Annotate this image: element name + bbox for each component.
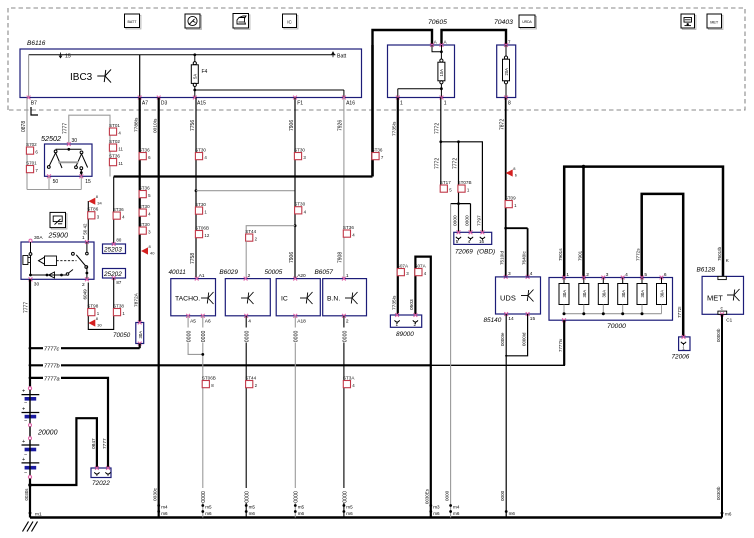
- svg-text:0000Ie: 0000Ie: [500, 332, 505, 346]
- svg-text:2: 2: [82, 282, 85, 288]
- svg-text:30: 30: [97, 322, 102, 327]
- svg-text:85140: 85140: [484, 317, 502, 324]
- svg-text:15: 15: [65, 53, 71, 59]
- unit MET (B6128) box: [702, 276, 743, 314]
- svg-text:7797: 7797: [476, 215, 482, 226]
- wire 7772 from fuse10A pin1(right): [440, 98, 442, 142]
- svg-text:m6: m6: [509, 511, 516, 516]
- svg-text:S702: S702: [26, 142, 37, 147]
- connector ST36: [113, 207, 125, 220]
- connector ST36: [139, 185, 151, 198]
- wire-destination arrow: [506, 166, 518, 178]
- svg-text:7640Ic: 7640Ic: [521, 251, 526, 265]
- wire 70000 bottom pin to bus 7777b: [562, 318, 566, 322]
- connector ST17: [440, 180, 452, 193]
- svg-text:0000: 0000: [444, 490, 449, 501]
- connector S701: [26, 160, 38, 173]
- svg-text:C1: C1: [726, 318, 732, 323]
- svg-text:7772I: 7772I: [677, 307, 682, 319]
- svg-text:89000: 89000: [396, 331, 414, 338]
- svg-text:MET: MET: [710, 20, 719, 24]
- branch to ST17: [440, 142, 442, 185]
- ignition switch 25900 box: [21, 242, 94, 279]
- wire 7788 from pin A7 (thick): [139, 98, 141, 323]
- svg-text:0000Ib: 0000Ib: [716, 328, 721, 342]
- svg-text:1: 1: [400, 100, 403, 106]
- svg-text:+: +: [22, 389, 25, 395]
- svg-text:m4: m4: [161, 505, 168, 510]
- connector ST30: [139, 222, 151, 235]
- svg-text:ST36: ST36: [113, 207, 124, 212]
- wire 52502 pins to 0878: [48, 176, 50, 189]
- svg-text:B7: B7: [31, 100, 37, 106]
- svg-text:30A: 30A: [562, 290, 567, 298]
- internal bus bar: [564, 313, 662, 315]
- wire fuse5 to 72006 (thick): [642, 194, 684, 337]
- icon clock gauge: [186, 15, 201, 29]
- svg-text:0000: 0000: [294, 331, 300, 343]
- svg-text:m6: m6: [298, 511, 305, 516]
- bus wire to 25203 (thick horizontal): [114, 175, 373, 177]
- connector ST98: [87, 303, 99, 316]
- svg-text:ST06B: ST06B: [195, 225, 209, 230]
- svg-text:52502: 52502: [41, 134, 61, 143]
- svg-text:3: 3: [508, 271, 511, 277]
- svg-text:50: 50: [53, 179, 59, 185]
- svg-text:70605: 70605: [428, 19, 447, 26]
- wire B6029 pin4 ground: [245, 316, 247, 518]
- wire OBD shield to ground (grey): [450, 204, 452, 518]
- svg-text:ST30: ST30: [195, 202, 206, 207]
- svg-text:ST30: ST30: [294, 202, 305, 207]
- svg-text:0503: 0503: [409, 299, 415, 310]
- svg-text:D3: D3: [161, 100, 168, 106]
- connector S702: [26, 142, 38, 155]
- svg-text:0000: 0000: [342, 491, 348, 503]
- svg-text:30A: 30A: [602, 290, 607, 298]
- svg-text:m6: m6: [346, 511, 353, 516]
- svg-text:7777b: 7777b: [44, 364, 60, 370]
- svg-text:0000: 0000: [342, 331, 348, 343]
- svg-text:0000: 0000: [201, 491, 207, 503]
- relay 52502 internals: [56, 148, 82, 150]
- connector ST01: [109, 123, 121, 136]
- svg-text:1: 1: [346, 273, 349, 279]
- svg-text:m6: m6: [205, 511, 212, 516]
- fuse 10A: [432, 45, 441, 52]
- svg-text:m6: m6: [453, 511, 460, 516]
- svg-text:30: 30: [34, 282, 40, 288]
- connector ST07B: [458, 180, 472, 193]
- wire ignition 30 to battery positive: [29, 279, 31, 386]
- svg-text:A20: A20: [297, 273, 306, 279]
- ignition internals bottom row: [29, 274, 32, 277]
- internal-connection symbol: [521, 290, 534, 302]
- svg-text:7510Id: 7510Id: [500, 251, 505, 265]
- wire code 0000: [243, 488, 249, 503]
- connector ST3A: [343, 375, 355, 388]
- connector ST30: [195, 202, 207, 215]
- svg-text:4: 4: [530, 271, 533, 277]
- svg-text:4: 4: [468, 239, 471, 244]
- wire branch to B6029 pin 2: [246, 226, 295, 234]
- svg-text:7872A: 7872A: [134, 292, 140, 307]
- svg-text:ST36: ST36: [139, 185, 150, 190]
- unit 25202 box: [103, 269, 126, 279]
- icon seat gauge: [682, 15, 696, 29]
- svg-text:72006: 72006: [672, 354, 690, 361]
- svg-text:ST44: ST44: [245, 375, 256, 380]
- svg-text:m5: m5: [249, 505, 256, 510]
- svg-text:30A: 30A: [138, 331, 143, 339]
- unit 72022 box: [91, 468, 111, 478]
- svg-text:B6057: B6057: [315, 269, 334, 276]
- svg-text:11: 11: [118, 161, 123, 166]
- svg-text:7772s: 7772s: [636, 248, 641, 261]
- svg-text:15: 15: [85, 179, 91, 185]
- svg-text:−: −: [24, 419, 27, 425]
- wire to 25203: [113, 177, 115, 245]
- internal-connection symbol: [300, 292, 313, 304]
- svg-text:7777: 7777: [24, 302, 30, 313]
- IBC3 internal wire term.15: [29, 54, 336, 56]
- icon IC: [284, 15, 298, 29]
- wire bus fuse1/fuse2 to MET (thick): [564, 167, 723, 278]
- svg-text:30A: 30A: [582, 290, 587, 298]
- svg-text:50005: 50005: [265, 269, 283, 276]
- unit 72006 box: [679, 337, 690, 351]
- svg-text:0030s: 0030s: [24, 488, 29, 501]
- connector pin: [480, 237, 485, 239]
- connector pin: [413, 320, 418, 322]
- svg-text:20000: 20000: [37, 430, 58, 437]
- svg-text:ST30: ST30: [139, 204, 150, 209]
- svg-text:0847: 0847: [91, 438, 97, 449]
- svg-text:A15: A15: [197, 100, 206, 106]
- unit 72069 OBD connector: [454, 232, 492, 244]
- wire 7756 from pin A15 to TACHO A1: [195, 98, 197, 279]
- wire code 0000: [185, 328, 191, 343]
- svg-text:UDS: UDS: [500, 294, 516, 303]
- connector ST30: [139, 204, 151, 217]
- svg-text:2: 2: [346, 319, 349, 325]
- svg-text:30A: 30A: [621, 290, 626, 298]
- icon MET: [708, 15, 723, 29]
- svg-text:m5: m5: [298, 505, 305, 510]
- connector pin: [105, 472, 110, 474]
- branch to ST07B / OBD pin5: [458, 142, 460, 204]
- IBC3 internal wire to A15: [194, 90, 196, 98]
- relay 52502 box: [45, 144, 93, 176]
- connector ST06B: [202, 375, 216, 388]
- svg-text:m6: m6: [725, 512, 732, 517]
- ground symbol: [23, 522, 38, 532]
- connector ST09: [505, 195, 517, 208]
- svg-text:1: 1: [82, 235, 85, 241]
- unit 70000 fuse box: [549, 278, 673, 321]
- svg-text:IBC3: IBC3: [70, 72, 93, 83]
- svg-text:7777: 7777: [102, 438, 108, 449]
- svg-text:ST02: ST02: [109, 139, 120, 144]
- svg-text:2: 2: [414, 322, 417, 327]
- connector ST86: [87, 207, 99, 220]
- fuse 3 (30A) in 70000: [601, 276, 605, 280]
- svg-text:7601Ib: 7601Ib: [717, 247, 722, 261]
- connector pin: [456, 237, 461, 239]
- wire 0878 from pin B7: [26, 98, 28, 190]
- svg-text:ST44: ST44: [245, 229, 256, 234]
- svg-text:ST30: ST30: [195, 147, 206, 152]
- wire TACHO A6 ground: [202, 316, 204, 518]
- svg-text:A18: A18: [297, 319, 306, 325]
- svg-text:1: 1: [396, 322, 399, 327]
- svg-text:0000: 0000: [294, 491, 300, 503]
- svg-text:5: 5: [644, 272, 647, 278]
- wire code 0000: [293, 488, 299, 503]
- wire code 0000: [293, 328, 299, 343]
- svg-text:−: −: [24, 471, 27, 477]
- svg-text:A16: A16: [346, 100, 355, 106]
- svg-text:ST86: ST86: [87, 207, 98, 212]
- wire-destination arrow: [88, 194, 102, 206]
- unit IBC3 (B6116) box: [20, 49, 362, 98]
- svg-text:IC: IC: [287, 19, 292, 24]
- svg-text:BATT: BATT: [128, 20, 138, 24]
- wire branch 7756 to 7906 node: [196, 190, 295, 192]
- switch blade: [76, 255, 85, 266]
- svg-text:4: 4: [625, 272, 628, 278]
- IBC3 internal wire to B7: [28, 55, 30, 98]
- svg-text:7772: 7772: [435, 158, 441, 169]
- svg-text:+: +: [22, 439, 25, 445]
- icon URDA: [520, 16, 536, 29]
- icon ignition key: [51, 214, 67, 229]
- fuse holder box 20A: [497, 45, 516, 98]
- fuse 2 (30A) in 70000: [582, 276, 586, 280]
- svg-text:25900: 25900: [48, 233, 69, 240]
- bus 7777a to 72022: [29, 377, 32, 380]
- svg-text:m4: m4: [453, 505, 460, 510]
- svg-text:6049: 6049: [83, 289, 88, 300]
- svg-text:ST98: ST98: [87, 303, 98, 308]
- wire 0503 89000 pin2 to ground (thick): [415, 257, 430, 518]
- svg-text:ST07B: ST07B: [458, 180, 472, 185]
- svg-text:72069: 72069: [455, 248, 473, 255]
- svg-text:B6029: B6029: [219, 269, 238, 276]
- fuse 20A: [505, 45, 507, 56]
- bus 7777b: [29, 364, 32, 367]
- connector pin: [94, 472, 99, 474]
- IBC3 internal wire to A7: [139, 55, 141, 98]
- svg-text:A5: A5: [190, 319, 196, 325]
- svg-text:70403: 70403: [494, 19, 513, 26]
- ground bus: [30, 516, 722, 518]
- svg-text:80: 80: [116, 238, 121, 243]
- svg-text:50 42: 50 42: [83, 223, 88, 235]
- connector pin: [468, 237, 473, 239]
- svg-text:m5: m5: [346, 505, 353, 510]
- wire 0010/0030 from pin D3 down to ground: [158, 98, 160, 518]
- unit UDS (85140) box: [496, 277, 541, 314]
- svg-text:ST36: ST36: [109, 153, 120, 158]
- IBC3 pins B7 A7 D3 A15 F1 A16: [27, 96, 31, 100]
- svg-text:7777a: 7777a: [44, 376, 60, 382]
- svg-text:5: 5: [456, 239, 459, 244]
- fuse holder box 10A: [388, 45, 455, 98]
- wire 70403 feed: [442, 30, 507, 45]
- svg-text:ST36: ST36: [372, 147, 383, 152]
- internal-connection symbol: [97, 69, 111, 82]
- svg-text:MET: MET: [707, 294, 723, 303]
- svg-text:7756: 7756: [190, 120, 196, 131]
- svg-text:m3: m3: [433, 505, 440, 510]
- wire-destination arrow: [88, 316, 102, 328]
- svg-text:30A: 30A: [34, 235, 43, 241]
- svg-text:ST36: ST36: [139, 147, 150, 152]
- svg-text:ST30: ST30: [139, 222, 150, 227]
- connector pin: [681, 342, 686, 344]
- svg-text:7906: 7906: [289, 120, 295, 131]
- wire 70605 branch down (thick): [371, 45, 373, 177]
- connector ST30: [294, 202, 306, 215]
- wire MET ground: [721, 314, 723, 517]
- svg-text:B6128: B6128: [697, 266, 716, 273]
- svg-text:0000Id: 0000Id: [521, 332, 526, 346]
- svg-text:(OBD): (OBD): [477, 248, 495, 255]
- svg-text:Batt: Batt: [337, 53, 347, 59]
- svg-text:1: 1: [566, 272, 569, 278]
- fuse 4 (30A) in 70000: [621, 276, 625, 280]
- svg-text:A: A: [434, 40, 437, 45]
- svg-text:ST38: ST38: [113, 303, 124, 308]
- svg-text:3: 3: [606, 272, 609, 278]
- svg-text:0000: 0000: [465, 215, 471, 226]
- connector ST02: [109, 139, 124, 152]
- svg-text:7926: 7926: [338, 120, 344, 131]
- svg-text:25203: 25203: [103, 247, 122, 254]
- svg-text:0000: 0000: [187, 331, 193, 343]
- svg-text:2: 2: [248, 273, 251, 279]
- icon BATT: [126, 15, 141, 29]
- svg-text:4: 4: [248, 319, 251, 325]
- svg-text:70050: 70050: [113, 332, 131, 339]
- wire ignition pin1 to arrow (term.50): [87, 201, 89, 242]
- svg-text:7772: 7772: [435, 123, 441, 134]
- wire from 52502 pin 30 up and to connector stack: [69, 115, 110, 176]
- svg-text:TACHO.: TACHO.: [175, 296, 200, 303]
- svg-text:0000: 0000: [201, 331, 207, 343]
- wire code 0000: [341, 488, 347, 503]
- svg-text:7777c: 7777c: [44, 347, 59, 353]
- svg-text:A7: A7: [142, 100, 148, 106]
- internal-connection symbol: [727, 289, 740, 301]
- svg-text:0000: 0000: [245, 491, 251, 503]
- wire 70605 feed: [373, 30, 433, 177]
- svg-text:0000: 0000: [453, 215, 459, 226]
- svg-text:0030c: 0030c: [153, 487, 159, 501]
- unit 89000 diagnostic box: [390, 315, 421, 327]
- wire code 0000: [200, 488, 206, 503]
- wire code 0000: [243, 328, 249, 343]
- fuse F4 (5A) inside IBC3: [193, 53, 196, 56]
- wire 7926/7908 from pin A16 to B.N. pin 1: [343, 98, 345, 279]
- svg-text:14: 14: [508, 316, 514, 322]
- svg-text:ST3A: ST3A: [343, 375, 355, 380]
- svg-text:7735Is: 7735Is: [392, 295, 398, 310]
- wire code 0000: [200, 328, 206, 343]
- dashed page border (power-supply region): [8, 8, 745, 110]
- svg-text:40011: 40011: [169, 269, 187, 276]
- svg-text:m6: m6: [161, 511, 168, 516]
- internal-connection symbol: [241, 292, 254, 304]
- connector ST36: [139, 147, 151, 160]
- wire code 0000: [341, 328, 347, 343]
- svg-text:ST09: ST09: [505, 195, 516, 200]
- connector ST06B: [195, 225, 210, 238]
- connector S07A: [397, 263, 409, 276]
- svg-text:URDA: URDA: [522, 20, 532, 24]
- svg-text:0000: 0000: [500, 490, 505, 501]
- svg-text:30A: 30A: [640, 290, 645, 298]
- connector ST30: [294, 147, 306, 160]
- svg-text:7901: 7901: [577, 250, 582, 261]
- fuse 6 (30A) in 70000: [660, 276, 664, 280]
- svg-text:ST30: ST30: [294, 147, 305, 152]
- internal-connection symbol: [201, 292, 214, 304]
- svg-text:7872: 7872: [500, 119, 506, 130]
- svg-text:16: 16: [479, 239, 485, 244]
- svg-text:+: +: [22, 457, 25, 463]
- unit 25203 box: [103, 244, 126, 254]
- svg-text:7777Iv: 7777Iv: [558, 338, 563, 352]
- internal-connection symbol: [345, 292, 358, 304]
- fuse 5 (30A) in 70000: [640, 276, 644, 280]
- svg-text:7772: 7772: [452, 158, 458, 169]
- svg-text:ST17: ST17: [440, 180, 451, 185]
- svg-text:20A: 20A: [504, 68, 509, 76]
- ignition switch internals: [30, 242, 32, 253]
- svg-text:30A: 30A: [660, 290, 665, 298]
- svg-text:7758: 7758: [190, 253, 196, 264]
- connector pin: [395, 320, 400, 322]
- svg-text:7901s: 7901s: [558, 248, 563, 261]
- svg-text:ST06B: ST06B: [202, 375, 216, 380]
- svg-text:A6: A6: [205, 319, 211, 325]
- svg-text:m5: m5: [205, 505, 212, 510]
- svg-text:5A: 5A: [193, 74, 198, 79]
- wire 25202 to ignition pin 2: [88, 278, 113, 329]
- wire 7906 from pin F1 to IC A20: [294, 98, 296, 279]
- svg-text:0030Es: 0030Es: [425, 488, 430, 504]
- svg-text:S07A: S07A: [397, 263, 409, 268]
- battery 20000: [28, 387, 31, 390]
- wire battery negative loop to 72022: [28, 483, 32, 487]
- icon odometer/printer: [234, 15, 250, 30]
- wire TACHO A5 ground: [188, 316, 203, 355]
- svg-text:m6: m6: [249, 511, 256, 516]
- wire-destination arrow: [141, 244, 155, 256]
- connector ST38: [113, 303, 125, 316]
- svg-text:30: 30: [72, 138, 78, 144]
- wire B.N. pin2 ground: [343, 316, 345, 518]
- svg-text:7777: 7777: [63, 123, 69, 134]
- svg-text:0878: 0878: [21, 121, 27, 132]
- svg-text:6: 6: [664, 272, 667, 278]
- svg-text:S701: S701: [26, 160, 37, 165]
- svg-text:IC: IC: [281, 296, 288, 303]
- connector ST36: [372, 147, 384, 160]
- svg-text:8: 8: [508, 100, 511, 106]
